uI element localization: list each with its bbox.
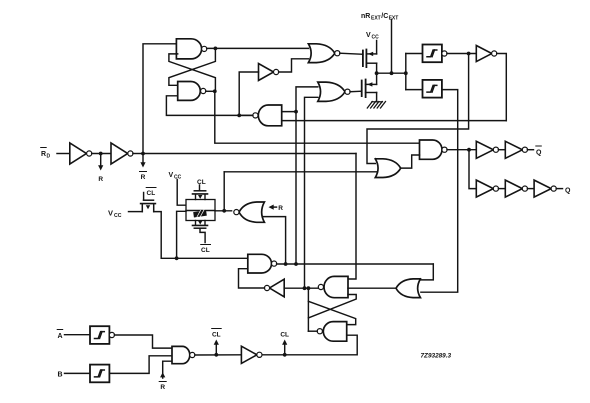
wire: G7 output to NMOS Q2 gate	[350, 90, 362, 93]
inverter G19 (Q chain 1)	[476, 180, 498, 197]
svg-text:R: R	[141, 174, 146, 181]
svg-text:7Z93289.3: 7Z93289.3	[421, 353, 452, 360]
wire: G15 output branch down to Q chain	[469, 150, 476, 189]
label R_D-bar (input)	[41, 148, 51, 160]
wire: G12 output branch down to OR G16 input	[367, 54, 469, 164]
wire: R-bar line to right	[143, 153, 356, 155]
R tap arrow (down)	[98, 154, 103, 171]
wire: G13 output down right side to OR G27 input	[421, 90, 458, 293]
svg-text:CL: CL	[212, 332, 221, 339]
svg-text:V: V	[108, 209, 113, 218]
label R (G22 input)	[278, 205, 283, 212]
wire: Q5 gate lead to CL-bar label	[200, 229, 205, 243]
node: junction on G8 output line	[237, 114, 241, 118]
wire: G5 output up to NOR G6 input	[279, 59, 309, 72]
label nRext/Cext	[361, 13, 398, 22]
wire: Q2 source to ground	[376, 93, 378, 102]
svg-text:D: D	[47, 154, 51, 160]
wire: G29 output to NAND G28	[114, 335, 172, 348]
wire: B lead	[65, 372, 91, 374]
wire: G2 output bubble to junction	[206, 90, 215, 92]
nor G22 (left-pointing, R input)	[234, 202, 265, 222]
inverter G24 (left-pointing)	[264, 279, 284, 297]
node: CL tap junction	[283, 353, 287, 357]
wire: G7 bottom input from bus x304.5	[305, 97, 318, 288]
wire: G2 output down and right to NAND G15 input	[215, 91, 420, 143]
wire: G28 output to inverter G31	[195, 354, 242, 356]
wire: G8 top input stub to bus x296	[282, 111, 296, 113]
label CL-bar (tap)	[212, 329, 222, 339]
wire: R_D-bar input lead	[57, 153, 70, 155]
svg-text:R: R	[278, 205, 283, 212]
inverter G31 (CL driver)	[241, 346, 262, 363]
wire: bus to schmitt G12 input	[406, 53, 423, 55]
label CL (tap)	[280, 332, 289, 339]
R-bar tap arrow (down)	[140, 154, 145, 168]
svg-text:/C: /C	[381, 13, 388, 20]
wire: G8 bottom input feedback line from buffer G14	[282, 120, 507, 122]
wire: G17 to G18	[498, 149, 505, 151]
wire: G23 output down to OR G27 input	[421, 264, 433, 280]
wire: G12 output to buffer G14	[447, 53, 476, 55]
inverter G5 (mid)	[259, 64, 279, 81]
wire: U1 output to U2 input	[92, 153, 111, 155]
wire: OR G27 output to G25 middle input	[348, 287, 396, 289]
resistor (TG internal, hatched)	[193, 210, 207, 219]
label CL-bar (Q5 gate)	[201, 245, 211, 255]
R tap arrow into G22	[269, 205, 277, 210]
node: TG output junction	[222, 209, 226, 213]
schmitt trigger G30 (B input)	[90, 365, 109, 383]
label V_CC (top)	[366, 32, 379, 41]
transistor Q5 (TG bottom, CL-bar gate)	[193, 221, 208, 229]
wire: G1 output cross-couple to G2 input	[169, 48, 216, 85]
inverter G18 (Qbar chain 2)	[505, 141, 527, 158]
wire: G24 output to G23 lower input	[239, 269, 265, 288]
transmission gate TG block outline	[186, 200, 215, 221]
label CL-bar (Q3 gate)	[146, 188, 156, 198]
node: junction on G23 input line	[175, 256, 179, 260]
wire: G24 input line from latch G25 output	[284, 287, 318, 289]
schmitt trigger G12	[423, 45, 448, 63]
inverter G17 (Qbar chain 1)	[476, 141, 498, 158]
wire: U2 output to R-bar node	[133, 153, 143, 155]
schmitt trigger G13	[423, 80, 442, 98]
wire: VCC to PMOS source	[376, 41, 378, 54]
node: schmitt bus junction	[404, 71, 408, 75]
svg-text:A: A	[58, 333, 63, 340]
wire: nRext/Cext pin lead	[391, 20, 393, 74]
node: nRext/Cext junction	[390, 71, 394, 75]
label A-bar	[57, 330, 63, 341]
node: CL-bar tap junction	[214, 353, 218, 357]
wire: schmitt input bus vertical	[405, 54, 407, 90]
wire: G26 bottom input from CL line	[263, 335, 357, 355]
wire: A-bar lead	[65, 334, 91, 336]
svg-text:nR: nR	[361, 13, 370, 20]
wire: G7 top input from bus x296	[296, 87, 318, 264]
label Q	[565, 188, 571, 195]
nand G23 (bottom middle)	[248, 254, 277, 273]
transistor Q1 (PMOS)	[363, 50, 377, 68]
buffer G14	[476, 46, 497, 62]
R-bar tap into G28	[160, 361, 172, 378]
or G16 (small OR)	[375, 159, 400, 178]
inverter U1 (R_D-bar buffer 1)	[70, 143, 92, 164]
label R-bar (G28 input)	[159, 382, 166, 392]
wire: R-bar vertical down to latch gate G25 input	[348, 154, 356, 280]
label 7Z93289.3	[421, 353, 452, 360]
label V_CC (TG)	[169, 172, 182, 181]
wire: G16 output to G15 input	[401, 155, 420, 168]
svg-text:EXT: EXT	[389, 16, 399, 22]
wire: G14 output feedback loop to G8	[497, 54, 507, 121]
wire: G2 output cross-couple to G1 input	[169, 54, 216, 91]
svg-text:CL: CL	[147, 190, 156, 197]
wire: G2 second input from AND G8 output line	[166, 96, 252, 116]
node: junction G8 input on bus x296	[294, 110, 298, 114]
wire: cross diagonal to G26 top input	[308, 301, 355, 324]
ground symbol	[367, 102, 385, 109]
nand G2 (bottom of top latch)	[178, 82, 206, 101]
svg-text:CL: CL	[201, 247, 210, 254]
wire: Q4 gate lead to CL label	[199, 185, 201, 191]
and G8 (left-pointing, feedback gate)	[253, 105, 282, 126]
node R (junction dot on R line)	[99, 152, 103, 156]
node: junction G22 branch on G23 output	[284, 262, 288, 266]
or G27 (left-pointing)	[396, 279, 420, 298]
wire: G21 output to Q label	[556, 188, 562, 190]
svg-text:B: B	[58, 372, 63, 379]
transistor Q2 (NMOS)	[362, 80, 377, 98]
label R-bar	[140, 172, 147, 182]
wire: TG output to NOR G22	[215, 210, 232, 212]
wire: G26 output to cross vertical	[308, 330, 317, 332]
wire: bus to schmitt G13 input	[406, 89, 423, 91]
transistor Q4 (TG top, CL gate)	[193, 191, 208, 200]
svg-text:CL: CL	[280, 332, 289, 339]
svg-text:Q: Q	[536, 150, 542, 157]
node R-bar (junction dot)	[141, 152, 145, 156]
wire: G23 output line right	[277, 263, 434, 265]
svg-text:EXT: EXT	[371, 16, 381, 22]
CL-bar tap arrow (up)	[214, 340, 219, 355]
wire: G5 input from node at x239	[239, 72, 258, 115]
wire: G30 output to NAND G28	[109, 356, 172, 374]
node: junction G7 branch on latch output	[303, 286, 307, 290]
node: junction G12 output	[467, 52, 471, 56]
wire: G1 output to NOR G6 input	[207, 47, 309, 49]
label B	[58, 372, 63, 379]
nand G15 (output NAND)	[420, 140, 448, 159]
node: Q1/Q2 drain junction	[375, 71, 379, 75]
wire: Q1 drain to node	[376, 63, 378, 73]
svg-text:CL: CL	[197, 179, 206, 186]
nand G28 (A/B input gate)	[172, 346, 195, 363]
wire: Q2 drain up to node	[376, 73, 378, 84]
label CL (Q4 gate)	[197, 179, 206, 186]
nor G6 (drives PMOS)	[308, 44, 340, 63]
latch nand G26 (left-pointing)	[317, 322, 347, 342]
inverter G20 (Q chain 2)	[505, 180, 527, 197]
CL tap arrow (up)	[282, 340, 287, 355]
svg-text:V: V	[169, 172, 174, 179]
wire: G8 output to left	[239, 114, 253, 116]
svg-text:Q: Q	[565, 188, 571, 195]
wire: VCC lead into TG block	[177, 180, 186, 206]
svg-text:V: V	[366, 32, 371, 39]
label Q-bar	[536, 146, 542, 157]
wire: G25 output cross vertical	[307, 288, 309, 331]
wire: node line to schmitt bus	[377, 72, 406, 74]
label R	[98, 176, 103, 183]
node: junction bus x296 on G23 output	[294, 262, 298, 266]
wire: TG output branch up to OR G16 line	[223, 172, 225, 211]
wire: G6 output to PMOS Q1 gate	[340, 53, 363, 54]
svg-text:CC: CC	[114, 213, 122, 219]
schmitt trigger G29 (A input)	[90, 326, 115, 344]
node: G2 output junction	[213, 89, 217, 93]
wire: R-bar node up to latch NAND G1 input	[143, 44, 176, 154]
svg-text:CC: CC	[372, 35, 380, 41]
nor G7 (drives NMOS)	[318, 82, 350, 101]
inverter U2 (R_D-bar buffer 2)	[111, 143, 133, 164]
wire: G22 bottom input down to G23 output line	[263, 217, 286, 264]
wire: G15 output to inverter chain	[447, 149, 476, 151]
wire: VCC to pass transistor Q3	[129, 211, 143, 213]
wire: G20 to G21	[527, 188, 534, 190]
wire: G18 output to Qbar label	[527, 149, 533, 151]
latch nand G25 (left-pointing)	[318, 276, 348, 297]
wire: TG output line to G16 bottom input	[224, 171, 377, 173]
svg-text:R: R	[98, 176, 103, 183]
nand G1 (top latch)	[176, 39, 206, 59]
inverter G21 (Q chain 3)	[534, 180, 556, 197]
svg-text:R: R	[160, 384, 165, 391]
label V_CC (left)	[108, 209, 122, 220]
wire: TG left-mid lead down to G23 input line	[177, 211, 186, 258]
transistor Q3 (pass, CL-bar gate)	[141, 200, 156, 211]
node: junction latch cross on latch output	[307, 286, 311, 290]
node: junction G15 output	[467, 148, 471, 152]
wire: G19 to G20	[498, 188, 505, 190]
wire: Q3 drain down to NAND G23 input line	[154, 212, 248, 259]
TG middle line	[186, 210, 215, 212]
wire: Q3 gate lead to CL-bar label	[143, 193, 145, 200]
wire: G25 third input cross-couple from G26 output	[308, 295, 356, 318]
svg-text:R: R	[41, 151, 46, 158]
node: G1 output junction	[214, 47, 218, 51]
